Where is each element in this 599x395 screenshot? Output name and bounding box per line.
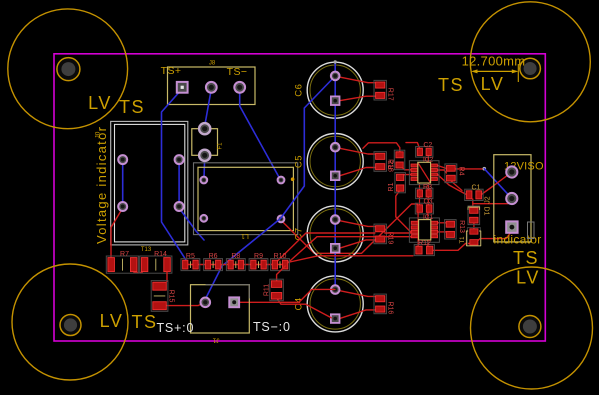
svg-text:TS+: TS+ xyxy=(161,65,182,77)
wire J8-2 to F1 (B.Cu) xyxy=(205,89,212,126)
resistor R18 xyxy=(374,152,386,172)
resistor R9 xyxy=(249,259,268,271)
wire R1 to IC2 (F.Cu) xyxy=(400,175,411,176)
resistor R11 xyxy=(270,279,284,301)
wire IC1 to R13 (F.Cu) xyxy=(438,222,446,224)
resistor R1 xyxy=(395,173,406,193)
wire R4 to C1 (F.Cu) xyxy=(451,181,462,191)
wire R14 to R15 (F.Cu) xyxy=(166,272,168,282)
pad C5-2 xyxy=(331,172,340,181)
capacitor C1 xyxy=(465,189,483,200)
wire R10 to R12 long (F.Cu) xyxy=(285,256,413,263)
wire D1 to Q1 (F.Cu) xyxy=(473,223,475,229)
ic IC2 xyxy=(409,161,439,185)
svg-text:R12: R12 xyxy=(418,240,431,247)
capacitor C3 xyxy=(415,203,433,214)
svg-text:C2: C2 xyxy=(423,142,432,149)
wire R3 to C3 (F.Cu) xyxy=(419,197,421,205)
pad J2-2 xyxy=(506,193,517,204)
pad J1-1 xyxy=(201,298,211,308)
svg-text:R10: R10 xyxy=(274,253,287,260)
wire R19 to IC1 (F.Cu) xyxy=(385,232,411,234)
wire C3 to IC1 (F.Cu) xyxy=(427,212,429,219)
wire relay to T1 (B.Cu) xyxy=(179,208,204,240)
svg-text:C3: C3 xyxy=(424,199,433,206)
wire J8-3 to T1 (B.Cu) xyxy=(240,90,280,179)
wire IC2 to R3 (F.Cu) xyxy=(419,183,421,190)
pad J2-1 xyxy=(506,166,517,177)
pad J1-2 xyxy=(229,297,239,307)
diode D1 xyxy=(468,206,480,225)
wire R2 to IC2 (F.Cu) xyxy=(400,165,411,170)
resistor R13 xyxy=(445,220,457,239)
pad C7-2 xyxy=(331,244,340,253)
via above C6 xyxy=(334,60,337,63)
svg-text:J0: J0 xyxy=(95,131,102,138)
svg-text:TS−: TS− xyxy=(227,66,248,78)
capacitor C7 body xyxy=(307,206,363,262)
wire J2-1 to C1 (F.Cu) xyxy=(481,172,512,195)
svg-text:D1: D1 xyxy=(483,207,490,216)
wire relay left pads (B.Cu) xyxy=(122,161,124,205)
wire R10 to R11 (F.Cu) xyxy=(277,266,286,281)
wire relay to R7 (F.Cu) xyxy=(111,208,123,257)
relay K1 outline xyxy=(111,121,188,244)
svg-text:T1: T1 xyxy=(460,236,466,244)
svg-text:R6: R6 xyxy=(209,253,218,260)
wire R7-R14 link (F.Cu) xyxy=(133,272,143,274)
svg-text:R11: R11 xyxy=(264,284,271,296)
pad K1-1 xyxy=(118,155,127,164)
svg-text:R7: R7 xyxy=(120,251,129,258)
keepout circle bottom-left xyxy=(12,264,128,380)
svg-text:R2: R2 xyxy=(388,160,395,169)
pad F1-2 xyxy=(199,150,210,161)
svg-text:R5: R5 xyxy=(186,253,195,260)
wire J1 to C4 to R16 (F.Cu) xyxy=(234,289,335,302)
wire C3 to R12 left (F.Cu) xyxy=(417,212,419,246)
svg-text:C1: C1 xyxy=(472,184,481,191)
pad K1-3 xyxy=(118,202,127,211)
mounting hole H4 bottom-right xyxy=(519,316,541,338)
gray mark J2 xyxy=(528,222,535,239)
svg-text:12.700mm: 12.700mm xyxy=(462,54,526,69)
svg-text:R14: R14 xyxy=(154,251,167,258)
wire bus capacitors vertical (B.Cu) xyxy=(334,62,336,290)
wire R11 to C4 square pad (F.Cu) xyxy=(277,298,332,318)
svg-text:C7: C7 xyxy=(294,227,305,240)
svg-text:L1: L1 xyxy=(241,232,249,239)
mounting hole H3 bottom-left xyxy=(60,315,81,336)
wire C7 pads to resistor (F.Cu) xyxy=(339,221,376,227)
wire R12 to Q1 (F.Cu) xyxy=(433,244,470,251)
resistor R12 xyxy=(414,245,434,256)
svg-text:J1: J1 xyxy=(212,337,219,344)
wire C2 to IC2 (F.Cu) xyxy=(427,156,429,163)
pad J8-2 xyxy=(206,82,217,93)
wire C4 pads to resistor (F.Cu) xyxy=(339,291,376,297)
svg-text:TS: TS xyxy=(513,248,539,268)
wire C5 to R2/C2 (F.Cu) xyxy=(363,143,400,152)
wire C5 pads to resistor (F.Cu) xyxy=(339,148,376,154)
svg-text:LV: LV xyxy=(516,268,540,288)
wire T1 to C3 (F.Cu) xyxy=(281,204,418,253)
connector J2 outline xyxy=(494,155,531,242)
ic IC1 xyxy=(409,218,439,242)
svg-text:TS+:0: TS+:0 xyxy=(157,321,195,335)
pad C6-2 xyxy=(331,96,340,105)
wire R10 to R19/IC1 pair (F.Cu) xyxy=(277,233,375,262)
fuse F1 outline xyxy=(192,129,218,156)
svg-text:IC2: IC2 xyxy=(423,157,434,164)
wire IC2 diagonal (F.Cu) xyxy=(418,163,431,183)
connector J8 outline xyxy=(168,67,256,105)
resistor R10 xyxy=(271,259,290,271)
svg-text:Voltage indicator: Voltage indicator xyxy=(94,126,109,244)
board edge (Edge.Cuts) xyxy=(54,54,545,341)
pad C6-1 xyxy=(331,72,340,81)
transistor Q1 xyxy=(467,228,480,246)
capacitor C6 body xyxy=(307,62,363,118)
pad C5-1 xyxy=(331,143,340,152)
svg-text:TS: TS xyxy=(131,312,157,332)
capacitor C2 xyxy=(416,147,433,158)
marker dot T1 xyxy=(291,177,295,181)
svg-text:C5: C5 xyxy=(294,155,305,168)
svg-text:LV: LV xyxy=(88,93,112,113)
svg-text:TS−:0: TS−:0 xyxy=(253,320,291,334)
via A xyxy=(483,167,487,171)
pad C7-1 xyxy=(331,215,340,224)
wire Q1 to J2-3 (F.Cu) xyxy=(474,231,512,244)
svg-text:J2: J2 xyxy=(485,196,492,204)
svg-text:T13: T13 xyxy=(141,247,152,253)
pad J8-3 xyxy=(234,82,245,93)
svg-text:R16: R16 xyxy=(387,301,394,314)
svg-text:R1: R1 xyxy=(388,182,395,191)
wire C6 to T1 area (B.Cu) xyxy=(205,76,335,299)
wire R15 to J1 (F.Cu) xyxy=(160,302,205,309)
resistor R8 xyxy=(226,259,245,271)
wire F1 to T1 (B.Cu) xyxy=(203,157,206,178)
mounting hole H2 top-right xyxy=(520,58,541,79)
resistor R19 xyxy=(374,224,386,244)
resistor R2 xyxy=(394,150,405,169)
svg-text:C6: C6 xyxy=(294,84,305,97)
svg-text:LV: LV xyxy=(481,74,505,94)
pad C4-1 xyxy=(331,285,340,294)
capacitor C4 body xyxy=(307,276,363,332)
keepout circle top-left xyxy=(8,9,128,129)
svg-text:TS: TS xyxy=(438,75,464,95)
pad J2-3 xyxy=(506,221,517,232)
wire C1 to D1 (F.Cu) xyxy=(472,199,474,208)
pad F1-1 xyxy=(199,123,210,134)
pad T1-3 xyxy=(200,215,207,222)
wire IC1 to R12 (F.Cu) xyxy=(427,240,429,246)
pad T1-2 xyxy=(278,177,285,184)
wire resistor row link (F.Cu) xyxy=(185,264,285,266)
svg-text:TS: TS xyxy=(119,97,145,117)
mounting hole H1 top-left xyxy=(57,58,80,81)
pad C4-2 xyxy=(331,314,340,323)
resistor R3 xyxy=(416,188,433,198)
svg-text:LV: LV xyxy=(100,311,124,331)
svg-text:R9: R9 xyxy=(254,253,263,260)
wire R1 to IC1 (F.Cu) xyxy=(396,190,411,233)
pad K1-4 xyxy=(175,202,184,211)
wire via to J2-2 (B.Cu) xyxy=(484,169,512,199)
svg-text:IC1: IC1 xyxy=(423,214,434,221)
svg-text:R4: R4 xyxy=(458,167,465,176)
resistor R4 xyxy=(445,164,457,183)
resistor R7 xyxy=(106,256,138,273)
capacitor C5 body xyxy=(307,134,363,190)
svg-text:R15: R15 xyxy=(168,290,175,303)
resistor R6 xyxy=(204,259,223,271)
resistor R17 xyxy=(374,80,386,100)
transformer T1 outline xyxy=(194,163,298,235)
wire J8-1 to R5 (B.Cu) xyxy=(162,89,187,263)
connector J1 outline xyxy=(191,285,250,333)
svg-text:F1: F1 xyxy=(218,142,224,150)
svg-text:R17: R17 xyxy=(387,88,394,101)
keepout circle bottom-right xyxy=(471,267,593,389)
resistor R15 xyxy=(151,281,168,312)
svg-text:J8: J8 xyxy=(209,61,216,67)
wire D1 to J2-2 (F.Cu) xyxy=(473,200,512,204)
pad T1-1 xyxy=(200,177,207,184)
wire relay right pads (B.Cu) xyxy=(178,161,180,205)
pad T1-4 xyxy=(278,216,285,223)
wire C6 pads to resistor (F.Cu) xyxy=(339,77,376,83)
pad K1-2 xyxy=(175,155,184,164)
wire IC2 fanout right (F.Cu) xyxy=(438,166,447,169)
svg-text:R3: R3 xyxy=(423,184,432,191)
resistor R16 xyxy=(374,294,386,314)
svg-text:R8: R8 xyxy=(231,253,240,260)
pad J8-1 xyxy=(177,82,188,93)
keepout circle top-right xyxy=(470,2,590,122)
wire R4 to via (F.Cu) xyxy=(455,168,483,170)
svg-text:R13: R13 xyxy=(458,220,465,233)
resistor R5 xyxy=(181,259,200,271)
resistor R14 xyxy=(140,256,172,273)
